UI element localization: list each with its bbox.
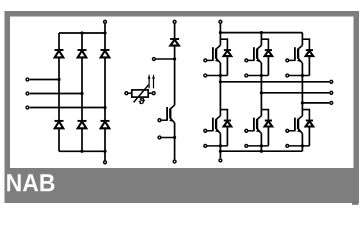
terminal: Q5 aux emitter — [286, 74, 289, 77]
transistor Q5 gate wire — [289, 59, 295, 61]
terminal: inverter DC+ — [219, 20, 222, 23]
terminal: chopper bottom — [173, 160, 176, 163]
wire: leg 3 row 2 emitter vertical — [301, 133, 303, 151]
terminal: phase output 1 — [330, 80, 333, 83]
freewheel diode of Q1 — [224, 49, 231, 51]
junction — [219, 31, 222, 34]
wire: input L3 — [30, 107, 105, 109]
wire: inverter DC+ lead — [219, 24, 221, 33]
transistor Q7 gate terminal — [158, 119, 161, 122]
junction — [80, 150, 83, 153]
wire: input L1 — [30, 79, 59, 81]
label bar — [5, 168, 360, 203]
terminal: chopper aux emitter — [158, 136, 161, 139]
wire: rectifier bottom rail (DC-) — [59, 150, 105, 152]
junction — [260, 74, 263, 77]
temperature sensor theta symbol — [139, 98, 145, 104]
junction — [260, 31, 263, 34]
transistor Q3 gate wire — [248, 59, 254, 61]
terminal: phase output 3 — [330, 101, 333, 104]
terminal: chopper tap — [152, 58, 155, 61]
wire: leg 3 row 2 diode jog — [302, 110, 309, 121]
temperature sensor body — [132, 90, 148, 97]
transistor Q2 gate terminal — [204, 129, 207, 132]
wire: leg 2 row 1 diode jog — [261, 39, 268, 50]
wire: inverter top rail — [220, 32, 302, 34]
terminal: Q4 aux emitter — [245, 144, 248, 147]
junction — [301, 101, 304, 104]
freewheel diode of Q4 — [265, 120, 272, 122]
wire: Q4 aux emitter wire — [248, 145, 268, 147]
junction — [103, 31, 106, 34]
transistor Q2 gate wire — [207, 130, 213, 132]
transistor Q5 gate terminal — [286, 59, 289, 62]
junction — [219, 144, 222, 147]
wire: rectifier top rail (DC+) — [59, 32, 105, 34]
wire: input L2 — [30, 93, 82, 95]
freewheel diode of Q2 — [224, 120, 231, 122]
wire: leg 1 row 1 diode jog — [220, 39, 227, 50]
wire: chopper emitter vertical — [174, 123, 176, 160]
terminal: chopper top — [173, 20, 176, 23]
temperature sensor lead right — [148, 92, 152, 94]
diode D4 — [55, 120, 64, 122]
temperature sensor lead left — [128, 92, 132, 94]
wire: leg 2 row 2 emitter vertical — [260, 133, 262, 151]
freewheel diode of Q5 — [306, 49, 313, 51]
wire: leg 3 row 1 emitter vertical — [301, 63, 303, 116]
temperature sensor arrow 2 — [153, 77, 155, 89]
wire: leg 2 row 1 diode anode vertical — [267, 56, 269, 75]
wire: chopper vertical middle — [174, 46, 176, 106]
wire: chopper vertical upper — [174, 24, 176, 39]
transistor Q6 gate wire — [289, 130, 295, 132]
terminal: rectifier DC+ output — [104, 20, 107, 23]
junction — [103, 106, 106, 109]
freewheel diode of Q3 — [265, 49, 272, 51]
temperature sensor arrow 1 — [148, 77, 150, 89]
junction — [260, 91, 263, 94]
junction — [260, 150, 263, 153]
wire: leg 3 upper collector vertical — [301, 33, 303, 46]
junction — [80, 31, 83, 34]
junction — [173, 57, 176, 60]
wire: Q1 aux emitter wire — [207, 75, 227, 77]
diode D1 — [55, 49, 64, 51]
terminal: phase output 2 — [330, 91, 333, 94]
wire: Q5 aux emitter wire — [289, 75, 309, 77]
wire: chopper tap wire — [156, 58, 175, 60]
transistor Q3 gate terminal — [245, 59, 248, 62]
terminal: Q3 aux emitter — [245, 74, 248, 77]
junction — [219, 74, 222, 77]
wire: phase output 2 — [261, 92, 329, 94]
transistor Q4 gate wire — [248, 130, 254, 132]
transistor Q1 gate terminal — [204, 59, 207, 62]
wire: Q6 aux emitter wire — [289, 145, 309, 147]
wire: leg 1 row 1 diode anode vertical — [226, 56, 228, 75]
wire: inverter DC- lead — [219, 151, 221, 158]
terminal: AC input L3 — [26, 106, 29, 109]
wire: leg 2 row 2 diode anode vertical — [267, 127, 269, 146]
diode D7 (chopper) — [170, 38, 179, 40]
wire: leg 3 row 1 diode anode vertical — [308, 56, 310, 75]
transistor Q6 gate terminal — [286, 129, 289, 132]
temperature sensor terminal right — [152, 92, 155, 95]
diode D3 — [101, 49, 110, 51]
diode D6 — [101, 120, 110, 122]
wire: leg 1 row 2 diode anode vertical — [226, 127, 228, 146]
diode D2 — [78, 49, 87, 51]
junction — [219, 80, 222, 83]
junction — [219, 150, 222, 153]
wire: leg 1 row 1 emitter vertical — [219, 63, 221, 116]
wire: leg 1 row 2 emitter vertical — [219, 133, 221, 151]
terminal: Q1 aux emitter — [204, 74, 207, 77]
transistor Q2 (IGBT) — [213, 116, 221, 134]
wire: rectifier branch 3 vertical — [104, 24, 106, 161]
diode D5 — [78, 120, 87, 122]
wire: Q3 aux emitter wire — [248, 75, 268, 77]
wire: rectifier branch 1 vertical — [58, 33, 60, 151]
transistor Q5 (IGBT) — [295, 45, 303, 63]
transistor Q4 (IGBT) — [254, 116, 262, 134]
junction — [103, 150, 106, 153]
junction — [301, 144, 304, 147]
terminal: Q6 aux emitter — [286, 144, 289, 147]
wire: leg 1 upper collector vertical — [219, 33, 221, 46]
wire: leg 2 upper collector vertical — [260, 33, 262, 46]
terminal: AC input L1 — [26, 78, 29, 81]
transistor Q1 (IGBT) — [213, 45, 221, 63]
wire: Q2 aux emitter wire — [207, 145, 227, 147]
transistor Q7 (IGBT) — [167, 105, 175, 123]
wire: leg 2 row 1 emitter vertical — [260, 63, 262, 116]
transistor Q1 gate wire — [207, 59, 213, 61]
transistor Q3 (IGBT) — [254, 45, 262, 63]
wire: leg 2 row 2 diode jog — [261, 110, 268, 121]
freewheel diode of Q6 — [306, 120, 313, 122]
junction — [57, 78, 60, 81]
transistor Q6 (IGBT) — [295, 116, 303, 134]
junction — [80, 92, 83, 95]
transistor Q4 gate terminal — [245, 129, 248, 132]
wire: leg 1 row 2 diode jog — [220, 110, 227, 121]
junction — [301, 74, 304, 77]
temperature sensor slash — [134, 85, 149, 103]
wire: phase output 1 — [220, 81, 329, 83]
terminal: AC input L2 — [26, 92, 29, 95]
wire: chopper aux emitter wire — [161, 137, 174, 139]
wire: leg 3 row 1 diode jog — [302, 39, 309, 50]
wire: rectifier branch 2 vertical — [81, 33, 83, 151]
wire: phase output 3 — [302, 102, 329, 104]
terminal: rectifier DC- output — [104, 161, 107, 164]
terminal: inverter DC- — [219, 159, 222, 162]
temperature sensor R(T) terminal left — [125, 92, 128, 95]
wire: inverter bottom rail — [220, 150, 302, 152]
wire: leg 3 row 2 diode anode vertical — [308, 127, 310, 146]
transistor Q7 gate wire — [161, 119, 167, 121]
junction — [173, 136, 176, 139]
module name NAB — [7, 174, 54, 191]
terminal: Q2 aux emitter — [204, 144, 207, 147]
junction — [260, 144, 263, 147]
watermark patch — [352, 201, 359, 205]
